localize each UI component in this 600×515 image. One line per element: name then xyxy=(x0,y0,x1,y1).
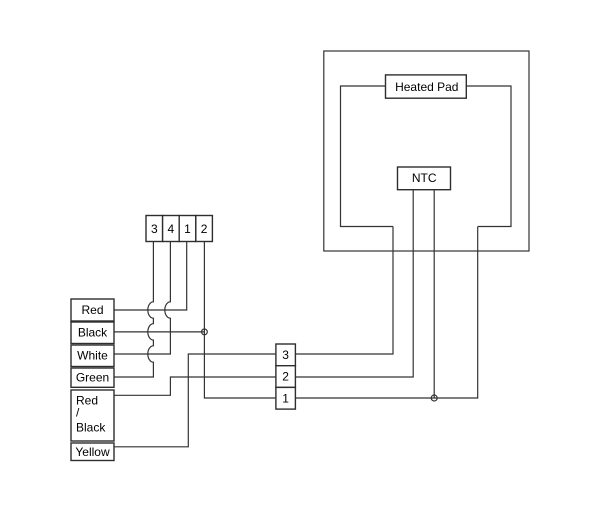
svg-text:Green: Green xyxy=(76,371,109,385)
wire: middle connector pin 3 to pad loop xyxy=(295,227,393,355)
wire: heating element loop right half xyxy=(466,86,511,227)
heated pad outer enclosure xyxy=(324,51,529,251)
wire: NTC right pin down to junction xyxy=(433,190,435,398)
top connector J1 xyxy=(146,216,212,242)
heated pad label box xyxy=(386,75,467,98)
middle connector J2 xyxy=(276,344,296,409)
wire: Yellow to J2 pin 3 xyxy=(114,354,276,447)
wire: Black to junction xyxy=(114,331,204,333)
label box Black xyxy=(71,322,114,344)
label box White xyxy=(71,345,114,367)
wire: J1 pin 4 to White with hop over Red xyxy=(114,242,170,355)
wire: middle connector pin 1 to pad loop right xyxy=(295,227,477,399)
junction node on Black net xyxy=(202,329,208,335)
svg-text:3: 3 xyxy=(151,222,158,236)
wire: middle connector pin 2 to NTC left pin xyxy=(295,190,413,377)
label box Red/Black xyxy=(71,390,114,441)
svg-text:Black: Black xyxy=(78,326,108,340)
wire: Red/Black to J2 pin 2 xyxy=(114,377,276,395)
label box Green xyxy=(71,368,114,387)
svg-text:4: 4 xyxy=(168,222,175,236)
wire: J1 pin 2 through Black junction to J2 pin 1 xyxy=(204,242,276,399)
svg-text:NTC: NTC xyxy=(412,171,437,185)
svg-text:Black: Black xyxy=(76,420,106,434)
wire: heating element loop left half xyxy=(341,86,394,227)
junction node on pin1 net xyxy=(431,395,437,401)
wire: J1 pin 3 to Green with hops over Red Black White xyxy=(114,242,153,378)
label box Yellow xyxy=(71,443,114,461)
svg-text:2: 2 xyxy=(201,222,208,236)
svg-text:3: 3 xyxy=(282,348,289,362)
wire: J1 pin 1 to Red xyxy=(114,242,187,311)
svg-text:1: 1 xyxy=(184,222,191,236)
svg-text:Yellow: Yellow xyxy=(75,445,110,459)
thermistor NTC box xyxy=(398,167,451,190)
svg-text:Red: Red xyxy=(81,303,103,317)
label box Red xyxy=(71,299,114,321)
svg-text:Heated Pad: Heated Pad xyxy=(395,80,458,94)
svg-text:1: 1 xyxy=(282,391,289,405)
svg-text:White: White xyxy=(77,349,108,363)
svg-text:2: 2 xyxy=(282,370,289,384)
